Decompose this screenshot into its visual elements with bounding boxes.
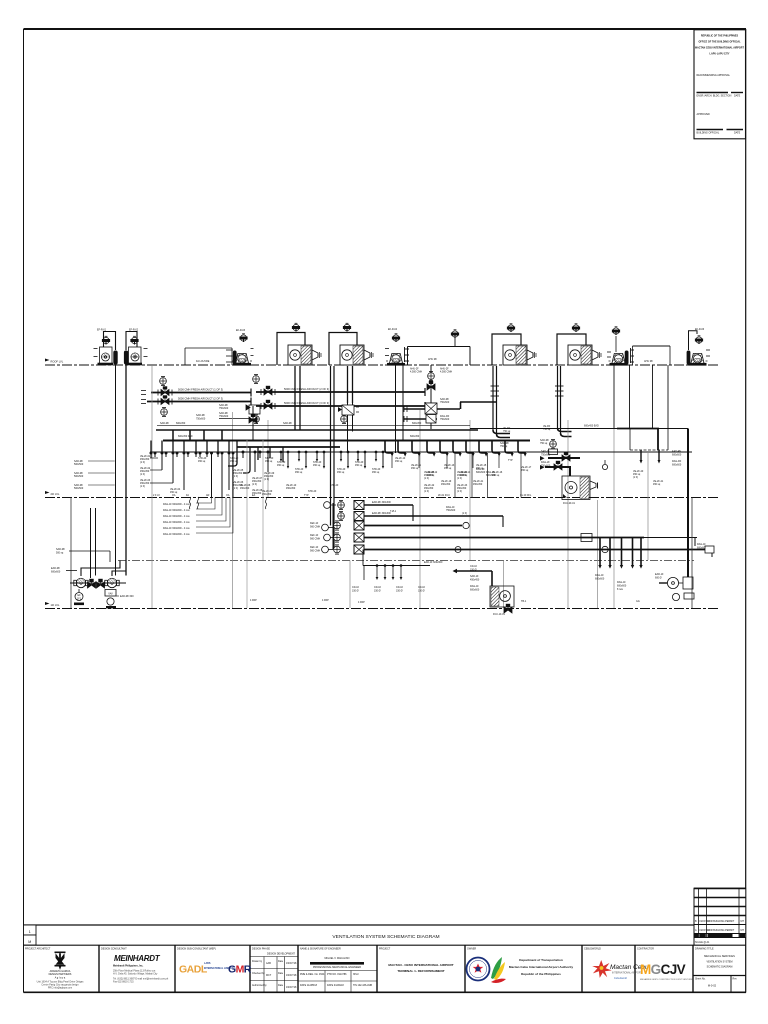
AHU-R-3 intake goalpost duct xyxy=(492,334,521,365)
left SAD riser labels xyxy=(74,460,115,490)
svg-text:750 sq: 750 sq xyxy=(540,442,548,445)
svg-text:600x450: 600x450 xyxy=(410,435,420,438)
row labels left xyxy=(310,522,320,553)
fan row 3 motor damper xyxy=(602,546,608,552)
AHU-R-2 unit xyxy=(340,345,373,365)
svg-text:150 Ø: 150 Ø xyxy=(396,590,403,593)
svg-text:A g l a y a: A g l a y a xyxy=(55,977,66,980)
svg-text:(1 F): (1 F) xyxy=(264,478,269,481)
svg-text:450 sq: 450 sq xyxy=(411,467,419,470)
flex connectors crossing 2F xyxy=(189,497,266,509)
svg-text:600x450: 600x450 xyxy=(176,422,186,425)
svg-text:RAG-1F 600x600 - 4 nos: RAG-1F 600x600 - 4 nos xyxy=(163,515,190,518)
AHU-R-1 intake goalpost duct xyxy=(277,333,305,366)
svg-text:Date: Date xyxy=(278,972,284,975)
EF-R-4 intake plenum xyxy=(408,347,471,366)
svg-text:DRAWING TITLE: DRAWING TITLE xyxy=(695,948,714,951)
svg-text:150 Ø: 150 Ø xyxy=(418,590,425,593)
svg-text:Checked by: Checked by xyxy=(252,972,265,975)
supply bus B xyxy=(163,440,530,442)
ceiling manifold labels xyxy=(352,586,426,593)
AHU-R-1 unit xyxy=(288,345,321,365)
inline exhaust fan EF-1F-2 xyxy=(105,578,119,587)
roof level datum flag xyxy=(45,359,50,365)
svg-text:5000 CMH FRESH AIR DUCT (1 OF: 5000 CMH FRESH AIR DUCT (1 OF 3) xyxy=(178,388,223,392)
svg-text:MIGUEL V. MACALINO: MIGUEL V. MACALINO xyxy=(325,957,350,960)
svg-text:OFFICE OF THE BUILDING OFFICIA: OFFICE OF THE BUILDING OFFICIAL xyxy=(698,41,741,44)
svg-text:ENGR./ARCH. BLDG. SECTION: ENGR./ARCH. BLDG. SECTION xyxy=(697,95,732,98)
EF-R-5 intake bracket xyxy=(631,348,635,363)
svg-text:OA: OA xyxy=(172,494,176,497)
fan row 3 damper xyxy=(334,545,341,554)
svg-text:EAD-RF 300x300: EAD-RF 300x300 xyxy=(372,512,391,515)
EF-R-3 roof vent xyxy=(240,334,247,342)
fan row 2 vav box xyxy=(354,533,364,542)
bottom small tags xyxy=(250,599,640,604)
svg-text:LAPU-LAPU CITY: LAPU-LAPU CITY xyxy=(710,53,730,56)
roof exhaust fan EF-R-5 xyxy=(609,354,629,366)
svg-text:450 sq: 450 sq xyxy=(277,464,285,467)
roof exhaust fan EF-R-4 xyxy=(386,354,406,366)
svg-text:500 sq: 500 sq xyxy=(56,552,64,555)
svg-text:Date: Date xyxy=(278,960,284,963)
svg-text:4 FRP: 4 FRP xyxy=(358,601,365,604)
svg-text:DESIGN DEVELOPMENT: DESIGN DEVELOPMENT xyxy=(267,953,295,956)
EF-R-6 intake goalpost xyxy=(689,331,698,350)
AHU-R-3 unit xyxy=(503,345,536,365)
svg-text:TYP: TYP xyxy=(508,459,513,462)
svg-text:450 sq: 450 sq xyxy=(444,467,452,470)
ceiling level line xyxy=(118,560,694,562)
svg-text:750x600: 750x600 xyxy=(541,465,551,468)
bus A drop 3 xyxy=(203,430,205,441)
architect hourglass logo xyxy=(55,952,66,970)
fresh air duct 1 xyxy=(151,392,251,394)
svg-text:FCU-2F-01: FCU-2F-01 xyxy=(563,502,576,505)
grid cell 1 xyxy=(24,925,37,935)
fan row 0a vav box xyxy=(354,501,364,510)
svg-text:DATE 11APR18: DATE 11APR18 xyxy=(300,984,318,987)
svg-text:BUILDING OFFICIAL: BUILDING OFFICIAL xyxy=(697,132,720,135)
svg-text:ROOF LVL: ROOF LVL xyxy=(51,360,64,364)
svg-text:MEGAWIDE GISPL CONSTRUCTION: MEGAWIDE GISPL CONSTRUCTION JOINT VENTUR… xyxy=(640,978,693,981)
shaft label xyxy=(644,360,653,363)
svg-text:150 Ø: 150 Ø xyxy=(470,569,477,572)
AHU-R-3 riser damper ticks xyxy=(491,386,500,396)
svg-text:5000 CMH FRESH AIR DUCT (2 OF: 5000 CMH FRESH AIR DUCT (2 OF 3) xyxy=(178,397,223,401)
shaft risers xyxy=(613,365,615,429)
roof small labels xyxy=(410,368,452,374)
OA connector duct xyxy=(460,402,497,409)
grid cell M xyxy=(24,935,37,945)
fan intake Z-ducts xyxy=(81,561,120,577)
svg-text:AHU RF: AHU RF xyxy=(428,358,437,361)
svg-text:GG: GG xyxy=(636,600,640,603)
svg-text:FOR BUILDING PERMIT: FOR BUILDING PERMIT xyxy=(708,929,735,932)
fan row 2 damper xyxy=(334,533,341,542)
svg-text:Fax 632 8819 1715: Fax 632 8819 1715 xyxy=(113,981,134,984)
svg-text:MACTAN CEBU INTERNATIONAL AIRP: MACTAN CEBU INTERNATIONAL AIRPORT xyxy=(695,47,744,50)
EF-R-4 roof vent xyxy=(392,334,399,342)
roof exhaust fan EF-R-6 xyxy=(688,354,708,366)
EF-R-1 intake L-duct xyxy=(104,332,116,351)
svg-text:600x450 FAD: 600x450 FAD xyxy=(178,435,193,438)
EF-R-1 side ticks xyxy=(94,349,98,357)
svg-text:600x600: 600x600 xyxy=(476,471,486,474)
svg-text:8 nos: 8 nos xyxy=(617,588,624,591)
row riser tee into rows xyxy=(332,526,335,538)
fan inline valves xyxy=(88,579,105,588)
thin continuation drops xyxy=(392,456,499,468)
AHU-R-4 unit xyxy=(568,345,601,365)
EF-R-4 side ticks xyxy=(385,349,389,356)
svg-text:2F-01 FCU: 2F-01 FCU xyxy=(438,494,450,497)
OA stub labels xyxy=(440,398,450,421)
svg-text:750 sq: 750 sq xyxy=(503,430,511,433)
FCU-1F supply duct xyxy=(453,569,493,586)
1F level datum flag xyxy=(45,602,50,608)
right exhaust bus xyxy=(470,428,688,430)
right wall register box xyxy=(705,546,714,553)
row 0a label xyxy=(372,501,397,513)
svg-text:STD-2F: STD-2F xyxy=(330,484,339,487)
FCU labels left xyxy=(470,565,480,592)
approval box top right xyxy=(694,30,746,139)
svg-text:DATE 04JAN18: DATE 04JAN18 xyxy=(327,984,344,987)
mid drop arrowheads xyxy=(280,459,384,469)
row 0a tee drop xyxy=(412,505,414,521)
svg-text:(1 F): (1 F) xyxy=(252,483,257,486)
svg-text:(1 F): (1 F) xyxy=(140,461,145,464)
svg-text:(1 F): (1 F) xyxy=(424,477,429,480)
svg-text:FA LOUVRE: FA LOUVRE xyxy=(196,360,210,363)
svg-text:REPUBLIC OF THE PHILIPPINES: REPUBLIC OF THE PHILIPPINES xyxy=(701,35,739,38)
FA duct 2 inline valve xyxy=(158,396,172,405)
svg-text:450x450: 450x450 xyxy=(240,487,250,490)
EF-R-4 label xyxy=(388,328,398,331)
bus A drop 1 xyxy=(172,430,174,441)
panel 6: project name xyxy=(379,948,454,974)
svg-text:Department of Transportation: Department of Transportation xyxy=(519,958,563,962)
feeder elbows xyxy=(228,441,237,467)
svg-text:4,500 CMH: 4,500 CMH xyxy=(440,371,452,374)
fresh air duct damper upper xyxy=(160,376,167,385)
header junction drops xyxy=(150,441,384,498)
svg-text:500x500: 500x500 xyxy=(74,475,84,478)
svg-text:1: 1 xyxy=(29,930,31,934)
svg-text:Drawn by: Drawn by xyxy=(252,960,263,963)
far right riser labels xyxy=(672,450,682,467)
svg-text:MECHANICAL SERVICES: MECHANICAL SERVICES xyxy=(704,954,735,958)
svg-text:FOR BUILDING PERMIT: FOR BUILDING PERMIT xyxy=(708,920,735,923)
svg-text:MEINHARDT: MEINHARDT xyxy=(114,954,161,963)
fan row 3 duct xyxy=(364,549,712,551)
left riser stack labels xyxy=(140,455,151,488)
2F level datum flag xyxy=(45,491,50,497)
ceiling small manifold xyxy=(363,550,430,581)
svg-text:600x600: 600x600 xyxy=(672,454,682,457)
svg-text:450 sq: 450 sq xyxy=(265,460,273,463)
fan tag EF-1F-2 xyxy=(105,590,116,609)
EF-R-4 intake bracket xyxy=(405,347,410,362)
svg-text:STD-2F: STD-2F xyxy=(308,490,317,493)
panel 8: cebu2world xyxy=(584,948,649,981)
panel 4: design phase table xyxy=(250,948,298,993)
fan row 3 inline damper 2 xyxy=(455,547,461,553)
ceiling ref labels xyxy=(160,422,422,425)
svg-text:Mactan Cebu International Airp: Mactan Cebu International Airport Author… xyxy=(509,965,574,969)
svg-text:SAD-RF: SAD-RF xyxy=(283,422,292,425)
room boundary line left xyxy=(70,498,72,609)
svg-text:VAV: VAV xyxy=(108,593,113,596)
FCU-1F-01 unit xyxy=(490,586,514,616)
exhaust duct shaft on roof xyxy=(633,346,671,365)
row 0b end elbow xyxy=(502,516,504,527)
left ceiling void label stack xyxy=(163,498,233,537)
svg-text:1F1: 1F1 xyxy=(77,598,82,601)
svg-text:750x600: 750x600 xyxy=(541,454,551,457)
DOTr seal xyxy=(467,958,490,981)
svg-text:900 CMH: 900 CMH xyxy=(310,526,320,529)
row feed riser xyxy=(332,503,334,550)
svg-text:EF-R-01: EF-R-01 xyxy=(97,329,107,332)
svg-text:MCT: MCT xyxy=(266,974,272,977)
svg-text:450x450: 450x450 xyxy=(441,483,451,486)
AHU-R-1 supply risers xyxy=(294,366,296,430)
exhaust intake label left xyxy=(51,567,77,574)
svg-text:MACTAN - CEBU INTERNATIONAL AI: MACTAN - CEBU INTERNATIONAL AIRPORT xyxy=(388,963,453,967)
svg-text:(1 F): (1 F) xyxy=(462,512,467,515)
svg-text:4,500 CMH: 4,500 CMH xyxy=(410,371,422,374)
EF-R-2 side ticks xyxy=(144,349,148,357)
AHU-R-3 elbow labels xyxy=(500,427,511,448)
svg-text:SAD-RF: SAD-RF xyxy=(160,422,169,425)
svg-text:Republic of the Philippines: Republic of the Philippines xyxy=(521,972,561,976)
svg-text:NAME & SIGNATURE OF ENGINEER: NAME & SIGNATURE OF ENGINEER xyxy=(300,948,341,951)
mid drop labels row xyxy=(240,461,381,496)
AHU-R-1 roof vent damper xyxy=(292,323,299,331)
kitchen hood label xyxy=(424,561,443,564)
svg-text:450 sq: 450 sq xyxy=(521,469,529,472)
svg-text:LABS: LABS xyxy=(204,962,211,965)
EF-R-2 label xyxy=(129,329,139,332)
svg-text:750x600: 750x600 xyxy=(446,509,456,512)
svg-text:450 sq: 450 sq xyxy=(230,460,238,463)
AHU-R-4 roof vent damper xyxy=(572,324,579,332)
fan connecting duct xyxy=(70,582,126,584)
EF-R-6 label tag xyxy=(695,328,710,356)
svg-text:(1 F): (1 F) xyxy=(140,485,145,488)
AHU-R-2 roof vent damper xyxy=(343,323,350,331)
roof exhaust fan EF-R-3 xyxy=(232,354,252,366)
svg-text:Date: Date xyxy=(278,984,284,987)
fresh air duct 4 xyxy=(256,405,425,407)
svg-text:FCU-1F-01: FCU-1F-01 xyxy=(493,613,506,616)
panel 10: drawing title xyxy=(693,948,746,993)
svg-text:H.V. Dela A5. Salcedo Village,: H.V. Dela A5. Salcedo Village, Makati Ci… xyxy=(113,973,158,976)
right drop manifold from row2 xyxy=(600,538,641,566)
AHU-R-2 supply risers xyxy=(347,366,349,403)
fan label right xyxy=(116,595,134,598)
right shaft stub dashed xyxy=(630,449,668,451)
mid label columns under header xyxy=(198,457,275,495)
fan row 0b damper xyxy=(338,511,345,520)
svg-text:750x600: 750x600 xyxy=(219,407,229,410)
svg-text:Meinhardt Philippines, Inc.: Meinhardt Philippines, Inc. xyxy=(113,965,144,968)
AHU-R-4 riser elbows xyxy=(558,428,572,432)
panel 3: design sub-consultant xyxy=(177,948,252,976)
panel 7: owner xyxy=(467,948,574,984)
svg-text:EF-R-03: EF-R-03 xyxy=(236,329,246,332)
panel 1: project architect xyxy=(25,948,84,990)
fan row 3 vav box xyxy=(354,545,364,554)
FA duct 1 end cap xyxy=(250,389,252,397)
row 0b label xyxy=(372,506,467,515)
bus elbow to shaft stub xyxy=(617,429,658,451)
svg-text:450x450: 450x450 xyxy=(262,493,272,496)
FA duct 4 lower damper xyxy=(253,414,260,423)
FA duct 4 end cap xyxy=(424,402,426,410)
svg-text:CONTRACTOR: CONTRACTOR xyxy=(637,948,654,951)
fan row 0a damper xyxy=(338,500,345,509)
svg-text:450x450: 450x450 xyxy=(286,487,296,490)
svg-text:PTR NO. 8114786: PTR NO. 8114786 xyxy=(327,973,347,976)
junction header xyxy=(150,451,692,453)
svg-text:EF-R-04: EF-R-04 xyxy=(388,328,398,331)
OA stub duct 1 xyxy=(404,403,460,414)
right drop label stacks xyxy=(424,471,496,486)
FA duct 1 inline valve xyxy=(158,387,172,396)
panel 2: design consultant xyxy=(101,948,169,984)
svg-text:RAG-1F 600x600 - 4 nos: RAG-1F 600x600 - 4 nos xyxy=(163,503,190,506)
svg-text:OA: OA xyxy=(226,494,230,497)
svg-text:DATE: DATE xyxy=(734,95,741,98)
shaft stub risers xyxy=(629,429,631,451)
1F level line xyxy=(45,608,720,610)
second row label stacks xyxy=(424,468,486,493)
svg-text:OWNER: OWNER xyxy=(467,948,476,951)
AHU-R-4 intake goalpost duct xyxy=(557,334,586,365)
EF-R-2 silencer capsule xyxy=(124,351,128,365)
AHU-R-2 intake goalpost duct xyxy=(329,333,357,366)
svg-text:2/F LVL: 2/F LVL xyxy=(51,492,60,496)
fan row 0a duct xyxy=(364,504,413,506)
svg-text:CL 2F FFL: CL 2F FFL xyxy=(520,494,532,497)
svg-text:450 sq: 450 sq xyxy=(355,464,363,467)
svg-text:TIN 102-436-LMB: TIN 102-436-LMB xyxy=(353,984,372,987)
shaft drop 1 xyxy=(633,450,644,479)
AHU-R-3 roof vent damper xyxy=(507,324,514,332)
riser drops to fans xyxy=(90,508,92,578)
svg-text:EAD-RF 600: EAD-RF 600 xyxy=(120,595,134,598)
svg-text:750 sq: 750 sq xyxy=(500,445,508,448)
svg-text:PROJECT: PROJECT xyxy=(379,948,391,951)
shaft drop 2 xyxy=(653,450,664,486)
svg-text:Cebu2world: Cebu2world xyxy=(614,977,627,980)
svg-text:450 sq: 450 sq xyxy=(295,471,303,474)
svg-text:Sheet No.: Sheet No. xyxy=(695,978,706,981)
plenum label xyxy=(428,358,437,361)
roof exhaust fan EF-R-1 box xyxy=(98,347,114,365)
OA stub duct 2 xyxy=(404,415,437,424)
svg-text:(1 F): (1 F) xyxy=(140,473,145,476)
FA duct 4 inline valve xyxy=(261,400,275,409)
svg-text:EF-R-02: EF-R-02 xyxy=(129,329,139,332)
supply bus A xyxy=(156,429,478,431)
svg-text:2 F LV: 2 F LV xyxy=(153,494,160,497)
manifold drop labels xyxy=(595,574,627,591)
fan row 0b vav box xyxy=(354,512,364,521)
svg-text:PROFESSIONAL MECHANICAL ENGINE: PROFESSIONAL MECHANICAL ENGINEER xyxy=(313,966,361,969)
EF-R-2 intake L-duct xyxy=(126,332,137,351)
fan row 1 end damper motor xyxy=(463,522,469,528)
fresh air duct 3 xyxy=(256,391,425,393)
svg-text:450 sq: 450 sq xyxy=(372,471,380,474)
EF-R-1 label xyxy=(97,329,107,332)
svg-text:PROJECT ARCHITECT: PROJECT ARCHITECT xyxy=(25,948,51,951)
bus A drop 4 xyxy=(221,430,223,441)
exhaust riser duct pair from EF-R-1/2 xyxy=(115,365,117,576)
svg-text:450 sq: 450 sq xyxy=(313,464,321,467)
FA duct 3 end cap xyxy=(424,388,426,396)
fresh air duct damper lower xyxy=(161,407,168,416)
EF-R-5 silencer capsule xyxy=(625,351,629,365)
FCU-2F vent damper xyxy=(549,439,558,454)
FCU-2F-1 unit xyxy=(562,476,598,505)
AHU-R-2 riser dampers xyxy=(338,403,359,453)
svg-text:5000 CMH FRESH AIR DUCT (2 OF: 5000 CMH FRESH AIR DUCT (2 OF 3) xyxy=(284,387,329,391)
room boundary verticals xyxy=(455,453,521,498)
OA riser with dampers at grid xyxy=(426,365,437,429)
EF-R-4 exhaust risers xyxy=(395,365,397,453)
riser from FA ducts with dampers xyxy=(246,405,260,441)
svg-text:(1 F): (1 F) xyxy=(424,490,429,493)
svg-text:600x600: 600x600 xyxy=(470,589,480,592)
left label leaders xyxy=(150,458,173,483)
svg-text:AR: AR xyxy=(206,494,210,497)
svg-text:RECOMMENDING APPROVAL: RECOMMENDING APPROVAL xyxy=(697,74,731,77)
svg-text:RAG-1F 600x600 - 4 nos: RAG-1F 600x600 - 4 nos xyxy=(163,527,190,530)
EF-R-3 silencer capsule xyxy=(233,351,237,365)
exhaust drop labels xyxy=(395,457,532,477)
svg-text:450x450: 450x450 xyxy=(470,579,480,582)
svg-text:450 sq: 450 sq xyxy=(395,460,403,463)
svg-text:RAG-1F 600x600 - 4 nos: RAG-1F 600x600 - 4 nos xyxy=(163,533,190,536)
svg-text:EAD-RF 300x300: EAD-RF 300x300 xyxy=(372,501,391,504)
svg-text:750x600: 750x600 xyxy=(196,418,206,421)
svg-text:450 sq: 450 sq xyxy=(198,460,206,463)
fan row 0b duct xyxy=(364,515,503,517)
svg-text:PME & REG. No. 4544: PME & REG. No. 4544 xyxy=(300,973,325,976)
svg-text:ISSU: ISSU xyxy=(353,973,359,976)
svg-text:PRC info@aglaya.com: PRC info@aglaya.com xyxy=(48,987,72,990)
AHU-R-4 supply risers xyxy=(557,366,559,428)
svg-text:M-0-02: M-0-02 xyxy=(708,984,717,988)
fan row 1 vav box xyxy=(354,521,364,530)
svg-text:(1 F): (1 F) xyxy=(457,490,462,493)
bus A drop 2 xyxy=(189,430,191,441)
svg-text:750x600: 750x600 xyxy=(440,418,450,421)
svg-text:APPROVED: APPROVED xyxy=(697,113,711,116)
svg-text:SCALE @ A1: SCALE @ A1 xyxy=(695,941,710,944)
EF-R-2 roof vent xyxy=(131,336,138,344)
exhaust bus right with step drops xyxy=(385,441,525,454)
svg-text:450x450: 450x450 xyxy=(473,483,483,486)
svg-text:TB-1: TB-1 xyxy=(521,600,527,603)
EF-R-1 roof vent xyxy=(102,336,109,344)
svg-text:SCHEMATIC DIAGRAM: SCHEMATIC DIAGRAM xyxy=(707,966,733,969)
svg-text:(1 F): (1 F) xyxy=(233,475,238,478)
